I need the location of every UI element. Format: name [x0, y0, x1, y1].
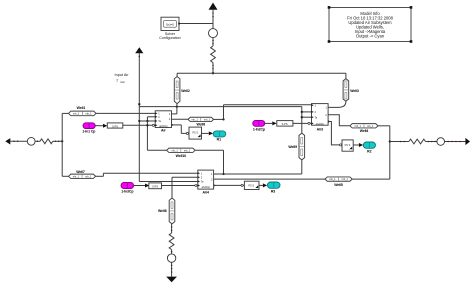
- converter PS-S2: [342, 140, 353, 151]
- svg-text:Well7: Well7: [76, 170, 85, 174]
- wire: [212, 63, 214, 74]
- wire air out2 to well8: [172, 118, 189, 120]
- subsystem Air3: [311, 104, 328, 132]
- junction (301.8,111.9): [301, 111, 303, 113]
- svg-text:ab4Opt: ab4Opt: [159, 125, 168, 128]
- wire: [426, 141, 438, 143]
- svg-text:mb_1: mb_1: [85, 113, 92, 116]
- subsystem Air4: [198, 170, 214, 194]
- port 1-In3Cp: [121, 182, 134, 193]
- wire well10 left: [147, 149, 166, 151]
- wire air4 out3 to PS-S3: [214, 184, 216, 186]
- wire air4 out2 to well5: [214, 178, 325, 180]
- wire: [134, 185, 145, 187]
- svg-text:R3: R3: [271, 190, 275, 194]
- physical signal port: [186, 132, 188, 134]
- wire: [171, 250, 173, 254]
- svg-text:Well2: Well2: [181, 89, 190, 93]
- wire S-PS1 to air p4: [123, 124, 155, 126]
- wire solver to node: [180, 23, 213, 25]
- svg-text:Well1: Well1: [77, 106, 86, 110]
- pipe block Well10: [167, 148, 196, 158]
- wire to air3 p3: [302, 116, 312, 118]
- svg-text:mb_1: mb_1: [367, 125, 374, 128]
- converter PS-S1: [189, 127, 202, 139]
- subsystem Air: [155, 111, 172, 133]
- left reference arrow: [5, 138, 10, 144]
- junction (213,73.2): [212, 72, 214, 74]
- wire right bus vertical x=389.8: [389, 126, 391, 179]
- solver configuration block: [159, 17, 180, 40]
- wire vertical riser x=223.5 upper: [223, 105, 225, 120]
- svg-text:mb_1: mb_1: [191, 119, 198, 122]
- pipe block Well7: [69, 170, 96, 179]
- junction (62.2,141.3): [61, 140, 63, 142]
- junction (147.4,125.3): [146, 124, 148, 126]
- wire well1 to air p1: [96, 112, 155, 114]
- svg-text:Configuration: Configuration: [159, 36, 180, 40]
- svg-text:Air4: Air4: [202, 190, 209, 194]
- wire well3 top stem: [345, 73, 347, 78]
- junction (147.4,121): [146, 120, 148, 122]
- pipe block Well6: [158, 198, 175, 224]
- pipe block Well8: [188, 117, 214, 126]
- wire air p3 from input-air line: [139, 120, 155, 122]
- svg-text:mb_1: mb_1: [184, 149, 191, 152]
- wire to air3 p2: [302, 111, 312, 113]
- physical signal port: [195, 184, 197, 186]
- converter S-PS2: [277, 121, 293, 127]
- svg-text:1-In2Cp: 1-In2Cp: [253, 127, 265, 131]
- svg-text:Air3: Air3: [317, 127, 324, 131]
- svg-text:Well9: Well9: [288, 145, 297, 149]
- wire well2 top stem: [176, 73, 178, 76]
- svg-text:1-In3Cp: 1-In3Cp: [121, 190, 133, 194]
- right reference arrow: [465, 138, 470, 145]
- svg-text:inlet: inlet: [120, 81, 125, 84]
- wire: [53, 140, 62, 142]
- svg-text:mb_1: mb_1: [73, 113, 80, 116]
- junction (176.9,106.6): [176, 105, 178, 107]
- svg-text:Air: Air: [161, 128, 166, 132]
- physical signal port: [340, 144, 342, 146]
- wire well6 top to air4 p2: [171, 177, 173, 198]
- wire well4 out: [378, 125, 390, 127]
- svg-text:S-PS: S-PS: [112, 125, 118, 128]
- wire line B drop x=301.8: [301, 107, 303, 134]
- svg-text:S-PS: S-PS: [282, 123, 288, 126]
- signal arrow to R1: [209, 131, 213, 135]
- pipe block Well9: [288, 133, 304, 160]
- wire: [445, 141, 466, 143]
- source circle bottom: [167, 254, 175, 262]
- svg-text:mb_1: mb_1: [355, 125, 362, 128]
- port R3: [267, 182, 280, 194]
- junction (223.5,174): [222, 173, 224, 175]
- svg-text:mb_1: mb_1: [329, 178, 336, 181]
- svg-text:Well4: Well4: [360, 129, 369, 133]
- wire S-PS2 to air3 p4: [293, 122, 312, 124]
- wire input air vertical: [138, 53, 140, 181]
- pipe block Well5: [325, 177, 352, 187]
- wire input air to air4 p3: [139, 181, 198, 183]
- junction (139.3,104.2): [138, 103, 140, 105]
- physical signal port: [308, 122, 310, 124]
- input air reference arrow: [135, 47, 143, 53]
- signal arrow to S-PS1: [103, 124, 107, 128]
- signal arrow to S-PS2: [272, 121, 276, 125]
- svg-text:S-PS: S-PS: [152, 186, 158, 189]
- svg-text:1-In1 Cp: 1-In1 Cp: [82, 129, 95, 133]
- wire air p2 branch: [146, 117, 148, 121]
- converter PS-S3b: [244, 181, 259, 189]
- wire S-PS3 to air4 p4: [162, 185, 198, 187]
- svg-text:mb_1: mb_1: [204, 119, 211, 122]
- wire: [353, 144, 359, 146]
- source circle right: [437, 138, 445, 146]
- wire: [171, 224, 173, 233]
- wire: [171, 262, 173, 276]
- wire: [259, 184, 263, 186]
- wire well10 drop to air4 out1 line: [223, 150, 225, 174]
- converter S-PS3: [149, 183, 162, 189]
- svg-text:mb_1: mb_1: [85, 175, 92, 178]
- wire: [95, 125, 103, 127]
- svg-text:Output -> Cyan: Output -> Cyan: [356, 34, 385, 39]
- svg-text:Well5: Well5: [334, 183, 343, 187]
- port 1-In1 Cp: [82, 123, 95, 134]
- resistor bottom chain: [169, 233, 174, 250]
- svg-text:Well3: Well3: [350, 89, 359, 93]
- wire well7 to air4 p1: [96, 175, 104, 177]
- wire well10 right: [195, 149, 223, 151]
- wire left bus vertical: [61, 113, 63, 176]
- source circle left: [27, 137, 35, 145]
- svg-text:R2: R2: [367, 150, 371, 154]
- annotation Model Info box: [328, 6, 413, 43]
- wire: [35, 140, 40, 142]
- pipe block Well3: [343, 79, 359, 102]
- signal arrow to R3: [263, 183, 267, 187]
- wire: [10, 140, 27, 142]
- reference arrow top: [209, 3, 218, 10]
- wire: [212, 38, 214, 46]
- wire line A to Air3 p1: [224, 104, 312, 106]
- wire air3 out3 to PS-S2: [328, 120, 330, 122]
- svg-text:mb_1: mb_1: [172, 149, 179, 152]
- svg-text:f(x)=0: f(x)=0: [166, 23, 174, 27]
- pipe block Well1: [69, 106, 97, 116]
- pipe block Well2: [174, 77, 190, 104]
- junction (223.5,119.4): [222, 118, 224, 120]
- svg-text:PS S: PS S: [345, 144, 351, 147]
- physical signal port: [152, 124, 154, 126]
- svg-text:Well8: Well8: [197, 122, 206, 126]
- junction (301.8,117.2): [301, 116, 303, 118]
- junction (389.8,141.5): [389, 140, 391, 142]
- port R2: [363, 142, 375, 154]
- svg-text:Well10: Well10: [176, 154, 187, 158]
- svg-text:ab4Opt: ab4Opt: [202, 186, 211, 189]
- svg-text:mb_1: mb_1: [73, 175, 80, 178]
- wire air3 out2 to well4: [328, 115, 350, 126]
- wire: [390, 141, 409, 143]
- wire well5 out: [352, 178, 390, 180]
- wire top bus: [177, 72, 346, 74]
- ground reference arrow bottom: [166, 277, 177, 283]
- svg-text:ab4Opt: ab4Opt: [316, 123, 325, 126]
- signal arrow to R2: [359, 143, 363, 147]
- port R1: [213, 131, 226, 142]
- physical signal port: [241, 184, 243, 186]
- wire air out1 to well2: [172, 113, 177, 115]
- source circle top: [209, 29, 218, 38]
- converter S-PS1: [107, 123, 123, 128]
- resistor top chain: [211, 46, 216, 63]
- wire air4 out1 to well9: [214, 173, 302, 175]
- wire: [265, 122, 273, 124]
- wire line B: [139, 106, 301, 108]
- svg-text:mb_1: mb_1: [342, 178, 349, 181]
- wire: [212, 10, 214, 29]
- svg-text:Well6: Well6: [158, 209, 167, 213]
- wire: [202, 132, 209, 134]
- wire well8 out: [214, 118, 224, 120]
- svg-text:PS S: PS S: [248, 184, 254, 187]
- pipe block Well4: [350, 124, 378, 134]
- junction (139.3,121): [138, 120, 140, 122]
- port 1-In2Cp: [253, 121, 265, 132]
- svg-text:Input Air: Input Air: [115, 73, 130, 77]
- signal arrow to S-PS3: [145, 184, 149, 188]
- svg-text:PS S: PS S: [192, 132, 198, 135]
- wire air out3 to PS-S1: [172, 124, 174, 126]
- wire air3 out1 to well3: [328, 101, 346, 107]
- svg-text:R1: R1: [217, 138, 221, 142]
- wire well10 feed vertical: [146, 121, 148, 150]
